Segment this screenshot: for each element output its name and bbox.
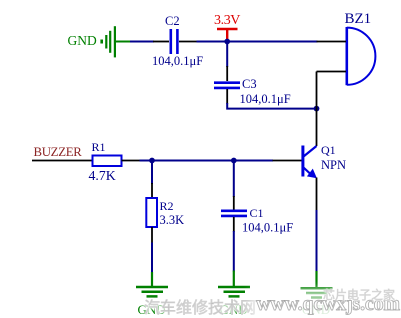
svg-text:Q1: Q1 [321, 143, 336, 157]
pin: C3 bottom [226, 89, 228, 104]
wire: R1 to base (mid rail) [140, 160, 274, 162]
ground G1 (under R2) [136, 272, 168, 296]
capacitor C1 [221, 211, 247, 216]
power port 3.3V [217, 29, 238, 41]
pin: R1 right [122, 160, 141, 162]
pin: Q1 base [273, 160, 303, 162]
svg-text:3.3V: 3.3V [214, 13, 240, 28]
svg-text:C3: C3 [242, 77, 257, 91]
svg-text:C1: C1 [250, 206, 264, 220]
buzzer BZ1 [347, 27, 376, 85]
svg-text:NPN: NPN [321, 158, 346, 172]
wire: C2 to buzzer (top rail) [197, 41, 318, 43]
pin: C2 right [179, 41, 198, 43]
capacitor C3 [214, 83, 240, 88]
svg-text:R1: R1 [92, 140, 106, 154]
pin: buzzer bottom [317, 71, 347, 73]
pin: R2 bottom [151, 227, 153, 244]
svg-text:104,0.1μF: 104,0.1μF [240, 92, 291, 106]
pin: C2 left [153, 41, 169, 43]
svg-text:BUZZER: BUZZER [34, 145, 83, 159]
junction dot at R2 tap [149, 158, 155, 164]
svg-text:BZ1: BZ1 [345, 11, 372, 27]
svg-text:3.3K: 3.3K [160, 213, 185, 227]
capacitor C2 [171, 29, 178, 54]
wire: C1 to ground [233, 231, 235, 272]
svg-text:104,0.1μF: 104,0.1μF [242, 220, 293, 234]
svg-text:104,0.1μF: 104,0.1μF [152, 54, 203, 68]
wire: C3 to collector column [227, 103, 316, 109]
junction dot at 3.3V tap [224, 39, 230, 45]
svg-text:GND: GND [68, 33, 97, 48]
wire: R2 to ground [151, 243, 153, 274]
pin: buzzer top [317, 41, 347, 43]
pin: R2 top [151, 183, 153, 198]
watermark site name cjk [144, 294, 256, 318]
svg-text:4.7K: 4.7K [89, 168, 116, 183]
watermark small [323, 286, 395, 303]
junction dot at C1 tap [231, 158, 237, 164]
pin: C1 bottom [233, 217, 235, 232]
wire: ground to C2 [130, 41, 154, 43]
wire: buzzer bottom to transistor collector [316, 72, 318, 147]
pin: C3 top [226, 66, 228, 81]
wire: C1 branch down [233, 161, 235, 197]
ground G2 (under C1) [218, 271, 250, 297]
watermark site url [256, 293, 400, 316]
wire: BUZZER to R1 [32, 160, 93, 162]
svg-text:R2: R2 [160, 199, 174, 213]
ground top-left (sideways GND power port) [100, 26, 131, 57]
junction dot on collector column [314, 106, 320, 112]
pin: C1 top [233, 196, 235, 210]
resistor R2 [146, 198, 157, 227]
wire: R2 branch down [151, 161, 153, 184]
pin: Q1 emitter down [316, 178, 318, 212]
svg-text:C2: C2 [165, 14, 180, 28]
wire: emitter to ground [316, 210, 318, 272]
transistor Q1 [303, 146, 317, 179]
wire: 3.3V node down to C3 [226, 42, 228, 67]
resistor R1 [93, 156, 122, 167]
ground G3 (under Q1 emitter) [301, 271, 333, 298]
